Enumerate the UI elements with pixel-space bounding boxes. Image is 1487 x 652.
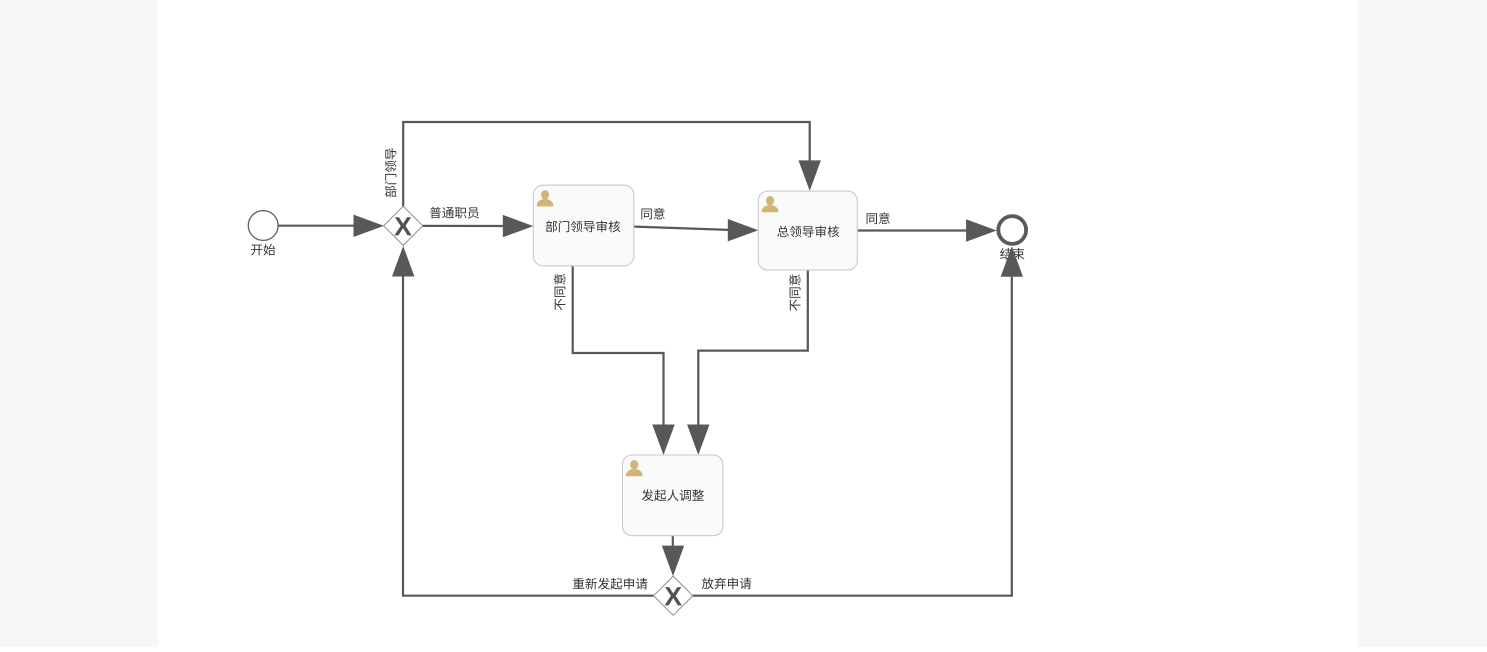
- wire: gateway G1 top to task 总领导审核 (部门领导 route): [403, 122, 821, 206]
- label 普通职员: [430, 207, 479, 219]
- wire: gateway G2 to end event (放弃申请): [693, 246, 1023, 596]
- label 不同意 (vertical, task2): [789, 275, 801, 311]
- label 不同意 (vertical, task1): [554, 274, 566, 310]
- wire: task 部门领导审核 down to task 发起人调整 (不同意): [573, 266, 675, 455]
- right gutter panel: [1358, 0, 1487, 647]
- label 放弃申请: [702, 577, 752, 589]
- wire: gateway G1 to task 部门领导审核 (普通职员 route): [423, 215, 534, 237]
- wire: gateway G2 to gateway G1 (重新发起申请): [392, 246, 654, 596]
- label 部门领导 (vertical): [385, 148, 397, 197]
- label 同意 (task1 to task2): [641, 208, 664, 220]
- user task 总领导审核: [758, 191, 857, 270]
- label 结束 (under arrow): [1000, 248, 1024, 260]
- label 同意 (task2 to end): [867, 212, 890, 224]
- wire: task 部门领导审核 to task 总领导审核 (同意): [634, 219, 759, 241]
- user task 发起人调整: [623, 455, 723, 536]
- wire: task 发起人调整 to gateway G2: [662, 536, 684, 576]
- user task 部门领导审核: [533, 185, 634, 266]
- left gutter panel: [0, 0, 158, 647]
- start event circle: [248, 211, 278, 241]
- wire: task 总领导审核 down to task 发起人调整 (不同意): [687, 270, 808, 455]
- wire: start event to gateway G1: [278, 215, 385, 237]
- label 重新发起申请: [573, 578, 647, 590]
- wire: task 总领导审核 to end event (同意): [856, 219, 997, 241]
- gateway G1 (exclusive X): [384, 206, 423, 245]
- end event circle: [998, 216, 1026, 244]
- gateway G2 (exclusive X): [654, 576, 693, 615]
- label 开始: [251, 244, 275, 256]
